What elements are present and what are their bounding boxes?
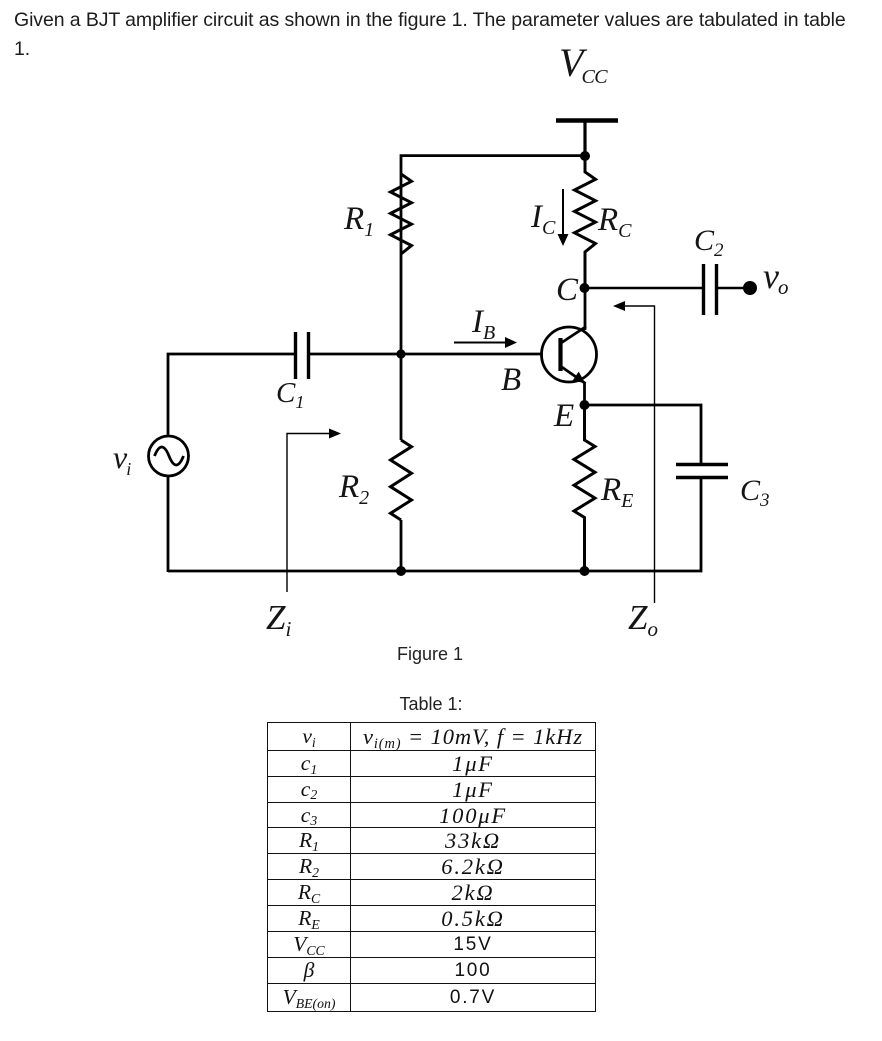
svg-text:vo: vo (763, 256, 788, 299)
capacitor C1 (296, 332, 309, 379)
wire: C2 to vo terminal (717, 287, 746, 289)
terminal vo dot (743, 281, 757, 295)
power symbol VCC (supply bar) (556, 118, 618, 122)
current arrow IB (454, 337, 517, 348)
svg-text:IB: IB (471, 304, 495, 344)
wire: collector vertical into transistor (584, 288, 587, 330)
label vo (763, 256, 788, 299)
resistor R1 (391, 174, 412, 254)
svg-text:VCC: VCC (559, 40, 608, 88)
node C junction dot (580, 283, 590, 293)
svg-text:C3: C3 (740, 474, 770, 511)
junction: R2/ground dot (396, 566, 406, 576)
resistor RC (575, 156, 596, 288)
label IB (471, 304, 495, 344)
capacitor C3 (676, 465, 728, 478)
capacitor C2 (704, 264, 717, 315)
label C2 (694, 224, 724, 261)
wire: C3 bottom to ground rail corner (584, 478, 701, 571)
svg-text:C2: C2 (694, 224, 724, 261)
wire: base wire from C1 to transistor (308, 353, 543, 356)
resistor RE (574, 405, 595, 571)
impedance arrow Zo (613, 301, 655, 603)
wire: emitter node E to C3 branch (584, 405, 701, 464)
wire: R1 bottom to base node to R2 top (400, 252, 403, 440)
wire: top rail from R1 to VCC node (401, 156, 585, 252)
wire: R2 bottom to ground rail (400, 520, 403, 571)
label node E (553, 398, 574, 434)
svg-text:IC: IC (530, 199, 556, 239)
label RC (597, 202, 632, 242)
svg-text:RC: RC (597, 202, 632, 242)
label RE (600, 472, 633, 512)
label vi (113, 439, 131, 479)
source vi (AC source) (149, 436, 189, 476)
label Zo (628, 598, 658, 641)
label C1 (276, 377, 304, 412)
label R2 (338, 469, 369, 509)
label VCC (559, 40, 608, 88)
resistor R2 (391, 440, 412, 520)
node E junction dot (580, 400, 590, 410)
wire: VCC bar stub down to top rail node (583, 120, 586, 156)
label C3 (740, 474, 770, 511)
label node C (556, 272, 579, 308)
transistor Q1 (542, 327, 597, 384)
svg-text:B: B (501, 362, 521, 398)
label IC (530, 199, 556, 239)
svg-text:C: C (556, 272, 579, 308)
svg-text:Zi: Zi (266, 598, 291, 641)
svg-text:C1: C1 (276, 377, 304, 412)
svg-text:R1: R1 (343, 201, 374, 241)
junction: VCC node dot (580, 151, 590, 161)
label B (501, 362, 521, 398)
svg-text:RE: RE (600, 472, 633, 512)
impedance arrow Zi (287, 429, 341, 593)
wire: collector node to C2 (584, 287, 703, 289)
wire: emitter down to node E (583, 382, 586, 405)
current arrow IC (558, 189, 569, 246)
label Zi (266, 598, 291, 641)
svg-text:E: E (553, 398, 574, 434)
svg-text:R2: R2 (338, 469, 369, 509)
junction: base/R1/R2 node dot (396, 349, 405, 358)
svg-text:Zo: Zo (628, 598, 658, 641)
wire: source bottom to ground rail (167, 476, 170, 572)
junction: RE/ground dot (580, 566, 590, 576)
svg-text:vi: vi (113, 439, 131, 479)
label R1 (343, 201, 374, 241)
wire: ground/bottom rail (168, 570, 586, 573)
wire: source top to C1 (168, 354, 296, 436)
